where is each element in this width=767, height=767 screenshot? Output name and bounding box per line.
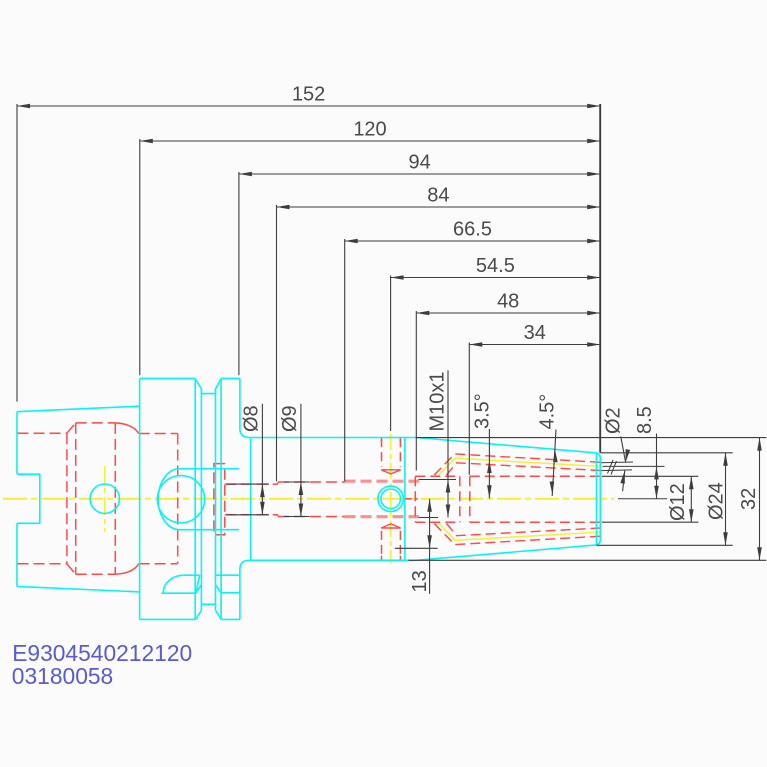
- body top line: [250, 437, 416, 439]
- shank coolant hole circle: [90, 484, 119, 513]
- part number line 2: [12, 663, 113, 689]
- bore sphere arc bottom: [115, 564, 138, 575]
- bore dia8 bottom: [225, 514, 278, 516]
- flange left face: [139, 378, 141, 619]
- bore dia12 start wall: [469, 476, 471, 522]
- part number line 1: [12, 640, 192, 666]
- body bottom line: [250, 559, 416, 561]
- dimension 13: [395, 499, 438, 594]
- gripper notch right slant: [196, 575, 200, 593]
- dimension M10x1: [419, 370, 457, 517]
- relief box bottom: [415, 521, 460, 523]
- relief box right wall: [459, 476, 461, 522]
- cross hole circle outer: [378, 486, 403, 511]
- coolant channel top axis: [439, 458, 600, 475]
- neck fillet top: [240, 429, 250, 438]
- coolant channel bottom wall upper: [447, 524, 601, 536]
- svg-text:66.5: 66.5: [453, 219, 492, 241]
- coolant channel top wall lower: [447, 463, 601, 475]
- svg-text:M10x1: M10x1: [427, 371, 449, 431]
- svg-text:Ø9: Ø9: [279, 405, 301, 432]
- thread M10 crest bottom: [345, 515, 420, 518]
- flange V-groove top: [195, 379, 221, 394]
- svg-text:32: 32: [738, 488, 760, 510]
- nose tip chamfer line: [596, 454, 598, 545]
- cross hole circle inner: [381, 489, 401, 509]
- bore top chamfer: [67, 423, 76, 433]
- nose cone top edge: [416, 438, 595, 453]
- coolant tube rectangle: [214, 464, 225, 535]
- dimension 120: [140, 119, 600, 376]
- radial hole bottom mouth ticks: [382, 556, 401, 561]
- bore sphere arc top: [115, 423, 138, 434]
- bore dia12 bottom: [470, 521, 600, 523]
- bore vertical sphere plane: [114, 423, 116, 574]
- bore top line small dia: [18, 432, 67, 434]
- svg-text:13: 13: [409, 570, 431, 592]
- svg-text:48: 48: [497, 291, 519, 313]
- bore bottom line small dia: [18, 563, 67, 565]
- groove edge line 2: [200, 389, 202, 610]
- dimension 8.5: [634, 406, 659, 499]
- svg-text:34: 34: [524, 322, 546, 344]
- bore dia8 top: [225, 483, 278, 485]
- centerline tick for 8.5: [618, 498, 667, 500]
- bore vertical step 2: [75, 423, 77, 574]
- groove edge line 4: [220, 379, 222, 620]
- radial hole bottom walls: [382, 531, 401, 560]
- radial hole bottom drill point: [381, 524, 401, 528]
- cone tangent line: [404, 438, 406, 561]
- groove floor bottom: [201, 603, 215, 605]
- dimension 4.5deg: [537, 394, 559, 496]
- main axis centerline: [3, 498, 614, 500]
- bore end wall: [177, 434, 179, 564]
- gripper notch arc: [163, 575, 183, 592]
- flange top edge left: [140, 377, 196, 379]
- dimension dia24: [597, 453, 733, 546]
- drive slot capsule: [158, 469, 239, 530]
- svg-text:Ø2: Ø2: [603, 407, 625, 434]
- groove edge line 3: [215, 389, 217, 610]
- flange bottom edge right: [221, 618, 240, 620]
- bore dia12 top: [470, 475, 600, 477]
- svg-text:120: 120: [353, 119, 386, 141]
- flange bottom V slant left: [196, 610, 202, 619]
- svg-text:03180058: 03180058: [12, 663, 113, 689]
- dimension 66.5: [345, 219, 601, 482]
- dimension dia8: [227, 404, 269, 515]
- shared right extension line: [599, 104, 601, 453]
- drive slot end circle: [157, 476, 204, 523]
- bore dia9 bottom: [278, 516, 345, 518]
- svg-text:54.5: 54.5: [476, 255, 515, 277]
- radial hole vertical centerline: [390, 434, 392, 564]
- relief box left wall: [414, 476, 416, 522]
- dimension 48: [416, 291, 600, 471]
- dimension dia2: [603, 407, 631, 491]
- radial hole top mouth ticks: [382, 437, 401, 442]
- bore bottom line large dia: [76, 573, 116, 575]
- dimension 3.5deg: [472, 393, 494, 498]
- bore bottom line after sphere: [139, 563, 178, 565]
- gripper notch top edge: [184, 574, 200, 576]
- nose tip face: [599, 458, 601, 540]
- groove slant inner right: [216, 585, 222, 593]
- flange top edge right: [221, 377, 240, 379]
- coolant channel top wall upper: [434, 454, 600, 475]
- bore top line large dia: [76, 422, 116, 424]
- svg-text:152: 152: [292, 84, 325, 106]
- svg-text:Ø12: Ø12: [667, 483, 689, 521]
- thread M10 crest top: [345, 480, 420, 483]
- dimension 34: [469, 322, 600, 475]
- relief box top: [415, 475, 460, 477]
- groove cone edge right bottom: [221, 592, 240, 594]
- nose tip corner bottom: [595, 540, 600, 545]
- bore step dia8-dia9: [277, 482, 279, 517]
- groove edge line 1: [194, 379, 196, 620]
- shank taper top edge: [17, 406, 140, 412]
- flange bottom edge left: [140, 618, 196, 620]
- dimension 152: [17, 84, 600, 402]
- svg-text:Ø8: Ø8: [241, 405, 263, 432]
- coolant channel bottom axis: [439, 524, 600, 541]
- dimension 94: [239, 152, 600, 376]
- radial hole top drill point: [381, 470, 401, 474]
- svg-text:8.5: 8.5: [634, 406, 656, 434]
- coolant hole wall projection lower: [601, 469, 632, 472]
- bore bottom chamfer: [67, 564, 76, 575]
- drill point dashes on centerline: [404, 498, 418, 500]
- shank left face: [16, 412, 18, 587]
- coolant hole axis projection: [603, 465, 665, 467]
- dimension 84: [277, 185, 601, 482]
- coolant channel bottom wall lower: [434, 524, 600, 545]
- svg-text:Ø24: Ø24: [706, 482, 728, 520]
- break slash marks: [608, 460, 617, 475]
- dimension 32: [409, 438, 767, 561]
- svg-text:3.5°: 3.5°: [472, 393, 494, 429]
- dimension dia9: [279, 404, 309, 517]
- bore vertical step 1: [66, 433, 68, 564]
- flange tangent line: [250, 438, 252, 561]
- svg-text:84: 84: [427, 185, 449, 207]
- shank taper bottom edge: [17, 586, 140, 592]
- radial hole top walls: [382, 438, 401, 467]
- flange right face upper: [239, 378, 241, 428]
- coolant-hole vertical centerline (shank): [104, 466, 106, 532]
- svg-text:94: 94: [408, 152, 430, 174]
- groove cone edge right top: [216, 574, 240, 576]
- flange right face lower: [239, 569, 241, 619]
- svg-text:4.5°: 4.5°: [537, 394, 559, 430]
- groove slant inner left: [196, 585, 202, 593]
- dimension 54.5: [391, 255, 601, 431]
- dimension dia12: [602, 476, 698, 522]
- neck fillet bottom: [240, 560, 250, 569]
- bore top line after sphere: [139, 433, 178, 435]
- flange bottom V slant right: [216, 610, 222, 619]
- shank left face notch: [17, 474, 40, 523]
- nose tip corner top: [595, 453, 600, 458]
- nose cone bottom edge: [416, 545, 595, 560]
- bore dia9 top: [278, 481, 345, 483]
- coolant hole wall projection upper: [601, 461, 633, 464]
- gripper notch floor: [161, 592, 195, 594]
